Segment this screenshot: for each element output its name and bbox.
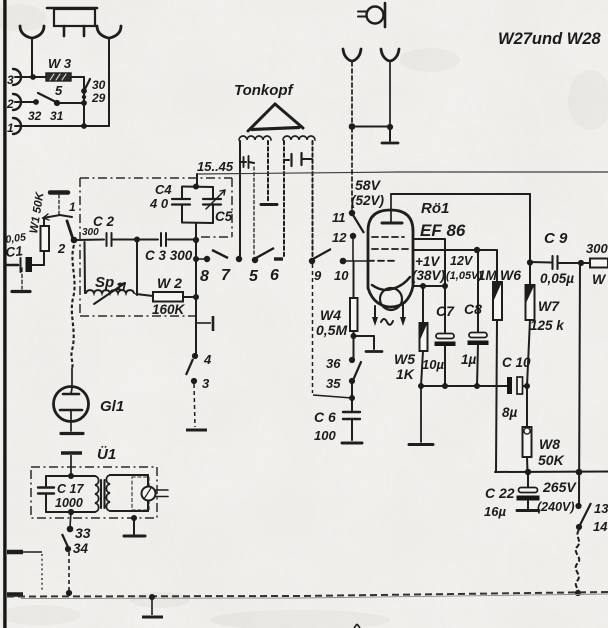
- svg-text:16µ: 16µ: [484, 504, 506, 519]
- svg-text:C 2: C 2: [93, 214, 115, 229]
- svg-text:2: 2: [6, 97, 14, 111]
- svg-text:58V: 58V: [355, 177, 382, 193]
- svg-text:5: 5: [249, 268, 259, 285]
- svg-text:C4: C4: [155, 182, 172, 197]
- svg-text:C 22: C 22: [485, 485, 515, 501]
- svg-text:6: 6: [270, 267, 279, 284]
- svg-text:160K: 160K: [152, 302, 186, 317]
- svg-text:11: 11: [332, 210, 346, 225]
- svg-text:(240V): (240V): [537, 500, 575, 514]
- svg-text:W: W: [592, 271, 607, 287]
- svg-text:W 2: W 2: [157, 275, 182, 291]
- svg-text:EF 86: EF 86: [420, 221, 466, 240]
- svg-text:C8: C8: [464, 301, 482, 317]
- svg-text:1: 1: [7, 121, 14, 135]
- svg-text:8: 8: [200, 268, 209, 285]
- svg-text:Ü1: Ü1: [97, 446, 116, 463]
- svg-text:0,5M: 0,5M: [316, 322, 347, 338]
- svg-text:(52V): (52V): [351, 193, 385, 208]
- svg-text:50K: 50K: [538, 452, 565, 468]
- svg-text:36: 36: [326, 356, 341, 371]
- svg-text:1M: 1M: [478, 268, 498, 283]
- svg-text:29: 29: [91, 91, 106, 105]
- svg-text:35: 35: [326, 376, 341, 391]
- svg-text:C 9: C 9: [544, 230, 568, 247]
- svg-text:1µ: 1µ: [461, 352, 477, 367]
- svg-text:3: 3: [7, 73, 14, 87]
- svg-text:14: 14: [593, 519, 608, 534]
- svg-text:(38V): (38V): [412, 268, 446, 283]
- svg-text:W5: W5: [394, 351, 415, 367]
- svg-text:0,05µ: 0,05µ: [540, 271, 574, 286]
- svg-text:9: 9: [314, 268, 322, 283]
- svg-text:2: 2: [57, 241, 66, 256]
- svg-text:31: 31: [50, 109, 64, 123]
- svg-text:C 17: C 17: [57, 482, 84, 496]
- svg-text:33: 33: [75, 525, 91, 541]
- svg-text:W8: W8: [539, 436, 560, 452]
- svg-text:Tonkopf: Tonkopf: [234, 82, 295, 99]
- svg-text:1000: 1000: [55, 496, 83, 510]
- svg-text:15..45: 15..45: [197, 159, 234, 174]
- svg-text:3: 3: [202, 376, 210, 391]
- svg-text:10: 10: [334, 268, 349, 283]
- svg-text:C 3 300: C 3 300: [145, 248, 193, 263]
- svg-text:W27und W28: W27und W28: [498, 30, 601, 48]
- svg-text:C1: C1: [5, 243, 24, 260]
- svg-text:13: 13: [594, 501, 608, 516]
- svg-text:100: 100: [314, 428, 336, 443]
- svg-text:8µ: 8µ: [502, 405, 518, 420]
- svg-text:Gl1: Gl1: [100, 398, 124, 415]
- svg-text:7: 7: [221, 267, 231, 284]
- svg-text:300: 300: [586, 241, 608, 256]
- svg-text:C 6: C 6: [314, 409, 336, 425]
- svg-text:4 0: 4 0: [149, 196, 169, 211]
- svg-text:1: 1: [69, 200, 76, 214]
- svg-text:W6: W6: [500, 267, 521, 283]
- svg-text:Sp: Sp: [95, 274, 114, 291]
- svg-text:W 3: W 3: [48, 56, 72, 71]
- svg-text:34: 34: [73, 541, 89, 556]
- svg-text:+1V: +1V: [415, 254, 440, 269]
- svg-text:(1,05V): (1,05V): [446, 270, 482, 282]
- svg-text:C 10: C 10: [502, 355, 531, 370]
- svg-text:W7: W7: [538, 298, 560, 314]
- svg-text:265V: 265V: [542, 479, 577, 495]
- svg-text:30: 30: [92, 78, 106, 92]
- svg-text:12: 12: [332, 230, 347, 245]
- svg-text:12V: 12V: [450, 254, 474, 268]
- svg-text:W4: W4: [320, 307, 341, 323]
- svg-text:125 k: 125 k: [530, 318, 565, 333]
- svg-text:5: 5: [55, 83, 63, 98]
- svg-text:10µ: 10µ: [422, 357, 444, 372]
- svg-text:1: 1: [116, 281, 122, 293]
- svg-text:C5: C5: [215, 209, 233, 224]
- svg-text:4: 4: [203, 352, 212, 367]
- svg-text:1K: 1K: [396, 366, 415, 382]
- svg-text:Rö1: Rö1: [421, 200, 449, 217]
- svg-text:32: 32: [28, 109, 42, 123]
- svg-text:C7: C7: [436, 303, 455, 319]
